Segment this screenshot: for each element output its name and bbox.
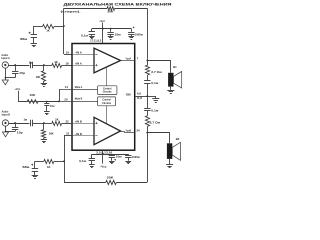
svg-text:1000м: 1000м — [132, 155, 140, 159]
svg-text:20: 20 — [64, 97, 68, 101]
resistor 16K (B) to ground — [43, 123, 45, 130]
svg-text:13,18: 13,18 — [137, 97, 143, 100]
capacitor 10n mute to ground — [46, 101, 48, 103]
capacitor 68u (A) — [33, 26, 35, 35]
wire to ground symbol — [147, 96, 156, 98]
wire op-amp B output — [121, 132, 135, 133]
capacitor 0.1u Zobel A — [144, 80, 150, 82]
svg-text:Input A: Input A — [1, 56, 10, 60]
op-amp U1A — [72, 54, 94, 56]
capacitor 0.1u (bottom) to ground — [91, 154, 93, 158]
ground under 68u A — [31, 43, 37, 45]
svg-text:2,7 Ом: 2,7 Ом — [150, 120, 161, 124]
resistor 1K series input (B) — [44, 123, 52, 125]
svg-text:1K: 1K — [54, 60, 58, 64]
node output B — [147, 131, 149, 133]
svg-text:68м: 68м — [22, 165, 29, 169]
ground under 16K B — [41, 139, 47, 141]
wire pin19 vertical — [63, 8, 65, 54]
resistor 2.7 Ohm Zobel A — [147, 61, 149, 66]
capacitor C2 1m series (B) — [30, 120, 32, 126]
control circuits box A — [98, 86, 117, 95]
wire bias up to pin 14 — [59, 89, 61, 101]
node feedback B junction — [63, 160, 65, 162]
node feedback A junction — [63, 25, 65, 27]
node input A junction 15p — [14, 64, 16, 66]
connector J1 Audio Input A — [2, 62, 8, 68]
resistor 20K feedback A — [107, 7, 115, 11]
svg-text:10м: 10м — [115, 32, 121, 36]
connector J2 Audio Input B — [2, 120, 8, 126]
svg-text:14: 14 — [65, 85, 69, 89]
node bias cap junction — [46, 101, 48, 103]
svg-text:1K: 1K — [47, 165, 51, 169]
svg-text:22: 22 — [66, 119, 70, 123]
svg-text:–Vcc: –Vcc — [100, 165, 107, 169]
wire Vcc rail top — [92, 28, 132, 30]
ground under 68u B — [32, 175, 38, 177]
svg-text:GND: GND — [126, 94, 131, 97]
wire feedback B bottom — [64, 182, 106, 184]
wire cap to node B1 — [33, 123, 44, 125]
wire input A to junction — [9, 65, 30, 67]
svg-text:20K: 20K — [107, 9, 113, 13]
svg-text:1K: 1K — [46, 28, 50, 32]
resistor 1K to 68u (B) — [54, 161, 64, 163]
capacitor 15p (A) to ground — [15, 65, 17, 71]
capacitor 0.1u (top) to ground — [91, 29, 93, 32]
svg-text:68м: 68м — [20, 37, 27, 41]
resistor 2.7 Ohm Zobel B — [147, 111, 149, 116]
svg-text:В1: В1 — [173, 65, 177, 69]
node output A — [146, 60, 148, 62]
svg-text:15p: 15p — [17, 130, 23, 134]
svg-text:0,1м: 0,1м — [151, 108, 158, 112]
svg-text:–IN B: –IN B — [75, 133, 82, 136]
svg-text:1000м: 1000м — [135, 32, 143, 36]
svg-text:0,1м: 0,1м — [81, 34, 88, 38]
wire GND pin stub — [135, 96, 148, 98]
svg-text:–IN A: –IN A — [75, 51, 82, 54]
svg-text:В2: В2 — [176, 137, 180, 141]
wire pin19 stub — [64, 54, 72, 56]
wire output A to speaker — [147, 61, 170, 73]
svg-text:0,1м: 0,1м — [79, 159, 86, 163]
node A1 junction — [43, 64, 45, 66]
resistor 10K bias — [18, 101, 27, 103]
svg-text:15p: 15p — [19, 71, 25, 75]
svg-text:VыхA: VыхA — [126, 58, 132, 61]
svg-text:10н: 10н — [50, 104, 55, 108]
node Vcc rail junctions — [102, 28, 104, 30]
wire output B to speaker — [147, 133, 169, 144]
control circuits box B — [98, 97, 116, 106]
svg-text:0,1м: 0,1м — [151, 81, 158, 85]
wire mute 1 pin 14 — [59, 89, 98, 91]
svg-text:10м: 10м — [116, 154, 122, 158]
node input B junction 15p — [14, 122, 16, 124]
resistor 1K to 68u (A) — [34, 26, 43, 28]
ground under speaker B2 — [169, 159, 171, 165]
svg-text:+IN A: +IN A — [75, 62, 82, 65]
svg-text:Mute B: Mute B — [75, 98, 83, 101]
ground chassis under connector B — [2, 132, 8, 137]
resistor 1K series input (A) — [44, 65, 52, 67]
wire connector B stem — [5, 126, 7, 132]
svg-text:10K: 10K — [29, 93, 35, 97]
wire cap to node A1 — [33, 65, 44, 67]
wire mute 2 pin 20 — [18, 101, 98, 103]
capacitor 1000u (top) to ground — [131, 29, 133, 32]
svg-text:21: 21 — [66, 132, 70, 136]
svg-text:+Vcc: +Vcc — [99, 19, 105, 23]
resistor 20K feedback B — [106, 180, 117, 184]
svg-text:16K: 16K — [49, 132, 54, 136]
capacitor 68u (B) — [34, 161, 36, 168]
svg-text:+Vcc: +Vcc — [15, 87, 21, 91]
capacitor 10u (bottom) to ground — [111, 154, 113, 155]
IC U1 box — [72, 44, 135, 151]
svg-text:18: 18 — [65, 61, 69, 65]
svg-text:Circuits: Circuits — [102, 102, 112, 105]
ground under speaker B1 — [170, 87, 172, 90]
wire Vcc bias vertical — [18, 91, 20, 102]
svg-text:17,11,9,2: 17,11,9,2 — [90, 39, 102, 43]
svg-text:3,5,8,13,16: 3,5,8,13,16 — [96, 150, 113, 154]
svg-text:1м: 1м — [24, 117, 28, 121]
svg-text:24: 24 — [137, 129, 141, 133]
node bias to pin14 junction — [58, 101, 60, 103]
op-amp U1B — [72, 123, 94, 125]
svg-text:ДВУХКАНАЛЬНАЯ СХЕМА ВКЛЮЧЕНИЯ: ДВУХКАНАЛЬНАЯ СХЕМА ВКЛЮЧЕНИЯ — [64, 2, 172, 7]
ground chassis under connector A — [2, 80, 8, 85]
svg-text:19: 19 — [66, 50, 70, 54]
capacitor 0.1u Zobel B — [147, 96, 149, 108]
svg-text:16K: 16K — [36, 75, 41, 79]
capacitor 1000u (bottom) to ground — [128, 154, 130, 155]
wire connector A stem — [5, 68, 7, 80]
wire control B to op-amp B — [106, 106, 108, 124]
wire pin21 stub — [64, 135, 72, 137]
svg-text:VыхB: VыхB — [126, 130, 132, 133]
wire -Vcc vertical from IC bottom — [102, 150, 104, 163]
svg-text:1м: 1м — [29, 60, 33, 64]
capacitor C1 1m series (A) — [30, 62, 32, 68]
node -Vcc rail junction — [102, 153, 104, 155]
wire 15p elbow to connector stem B — [6, 131, 16, 133]
wire feedback A to output — [115, 8, 148, 10]
capacitor 15p (B) to ground — [15, 123, 17, 127]
wire op-amp A output — [121, 60, 135, 62]
wire input B to junction — [9, 123, 30, 125]
svg-text:Input B: Input B — [2, 113, 10, 117]
node GND junction — [146, 95, 148, 97]
wire pin21 vertical — [64, 136, 66, 183]
resistor 16K (A) to ground — [43, 65, 45, 71]
wire op-amp A to control circuits — [106, 67, 108, 86]
capacitor 10u (top) to ground — [110, 29, 112, 32]
svg-text:Mute A: Mute A — [75, 86, 83, 89]
svg-text:+IN B: +IN B — [75, 120, 82, 123]
wire Vcc vertical to IC top — [102, 23, 104, 44]
wire feedback A top — [64, 8, 107, 10]
wire -Vcc rail — [92, 154, 129, 156]
ground under 16K A — [41, 83, 47, 85]
wire 15p elbow to connector stem — [5, 77, 15, 79]
ground right middle — [152, 98, 159, 100]
svg-text:20K: 20K — [107, 176, 114, 180]
svg-text:1K: 1K — [55, 117, 59, 121]
svg-text:Circuits: Circuits — [103, 91, 113, 94]
wire feedback B to output — [116, 182, 147, 184]
node B1 junction — [43, 122, 45, 124]
svg-text:2,7 Ом: 2,7 Ом — [151, 70, 162, 74]
